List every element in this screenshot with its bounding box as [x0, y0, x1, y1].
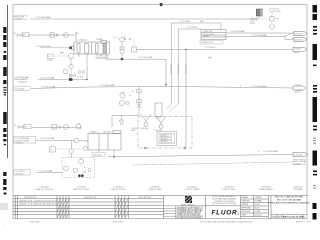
svg-text:2-31013-01: 2-31013-01 — [93, 155, 102, 157]
svg-text:ISSUED FOR CONSTRUCTION 05-98: ISSUED FOR CONSTRUCTION 05-98 — [19, 200, 57, 202]
right edge registration marks — [313, 5, 318, 220]
instrument circle with tail — [120, 37, 125, 42]
svg-text:2"-LO-31024-A3A: 2"-LO-31024-A3A — [252, 34, 267, 37]
svg-text:3"-LO-31016-A3A: 3"-LO-31016-A3A — [252, 85, 267, 88]
svg-text:2"-LO-31030-A3A: 2"-LO-31030-A3A — [263, 150, 278, 153]
off-page connector flag 3 — [293, 47, 307, 54]
svg-text:SHT 2: SHT 2 — [295, 92, 300, 94]
svg-text:FLUOR.: FLUOR. — [212, 209, 240, 216]
svg-text:DRAWN: DRAWN — [242, 196, 249, 199]
svg-text:1: 1 — [14, 200, 15, 202]
svg-text:FILTER: FILTER — [203, 36, 210, 38]
exchanger feed lines — [226, 32, 291, 34]
title block grid — [206, 196, 308, 219]
svg-text:DESIGN: DESIGN — [242, 204, 249, 206]
svg-text:2"-LO-31027-A3A: 2"-LO-31027-A3A — [40, 137, 55, 140]
svg-text:NOTE 2: NOTE 2 — [161, 138, 168, 140]
svg-text:0: 0 — [14, 204, 15, 206]
upper tank line — [32, 127, 81, 129]
svg-text:2-31012: 2-31012 — [294, 163, 301, 165]
svg-text:R. KHAN: R. KHAN — [255, 199, 263, 202]
svg-text:2"-LO-31021: 2"-LO-31021 — [180, 21, 190, 23]
exchanger tag box — [200, 41, 223, 44]
client logo — [185, 196, 192, 203]
svg-text:2"-LO-31032-A3A: 2"-LO-31032-A3A — [38, 170, 53, 173]
svg-text:2-31009: 2-31009 — [294, 85, 301, 87]
svg-text:12-05-98: 12-05-98 — [255, 215, 262, 217]
svg-text:2-31006-C1/C2: 2-31006-C1/C2 — [201, 42, 213, 44]
off-page connector flag 6 — [258, 150, 308, 157]
svg-text:N2: N2 — [14, 33, 16, 35]
svg-text:PSL: PSL — [276, 19, 279, 21]
svg-text:LUBE OIL COOLER: LUBE OIL COOLER — [73, 189, 90, 191]
instrument square — [50, 33, 54, 37]
svg-text:DESCRIPTION: DESCRIPTION — [139, 197, 152, 199]
tank tag box — [92, 153, 105, 157]
left film edge line — [6, 5, 9, 158]
svg-text:SC 101: SC 101 — [77, 77, 83, 79]
svg-text:2"-LO-31012-A3A: 2"-LO-31012-A3A — [36, 16, 51, 19]
reference drawing captions row — [35, 186, 303, 191]
svg-text:1: 1 — [304, 216, 305, 218]
svg-text:LUBE OIL CONSOLE: LUBE OIL CONSOLE — [35, 189, 53, 191]
vessel feed line — [40, 47, 72, 49]
svg-text:3"-LO-31016-A3A: 3"-LO-31016-A3A — [41, 85, 56, 88]
approval cells text — [242, 196, 263, 217]
instrument circle PDI — [270, 8, 274, 12]
instrument square on line — [132, 47, 137, 52]
off-page connector flag 1 — [230, 30, 307, 36]
svg-text:2-31015B: 2-31015B — [154, 130, 163, 132]
suction stem — [71, 141, 73, 158]
long line y87 right — [170, 86, 293, 88]
svg-text:2"-LO-31023-A3A: 2"-LO-31023-A3A — [230, 30, 245, 33]
disclaimer paragraph — [177, 206, 204, 219]
svg-text:2-31015A: 2-31015A — [140, 127, 149, 130]
svg-text:DRAIN HEADER: DRAIN HEADER — [259, 188, 273, 191]
dashed sample box lower — [62, 158, 95, 178]
vent drain line — [112, 116, 139, 128]
row2 components — [14, 33, 69, 38]
svg-text:2-LO-31019: 2-LO-31019 — [176, 64, 178, 74]
arrow V1 to y94 — [165, 84, 168, 87]
revision table — [13, 196, 307, 219]
svg-text:2-3100: 2-3100 — [47, 60, 53, 62]
svg-text:DESCRIPTION: DESCRIPTION — [84, 197, 97, 199]
svg-text:PIPING AND INSTRUMENTATION DIA: PIPING AND INSTRUMENTATION DIAGRAM — [269, 201, 310, 204]
diamond — [269, 24, 275, 30]
vessel drain left — [38, 54, 87, 80]
svg-text:APPROVED: APPROVED — [242, 206, 252, 209]
svg-text:MILL OIL / LUBE OIL SYSTEM: MILL OIL / LUBE OIL SYSTEM — [275, 196, 303, 198]
svg-text:SKID: SKID — [131, 130, 136, 132]
svg-text:LUBE OIL FILTER: LUBE OIL FILTER — [111, 189, 126, 191]
svg-text:2-31008: 2-31008 — [294, 49, 301, 51]
inline valve — [252, 18, 257, 21]
small valve — [57, 34, 59, 37]
drawing title — [269, 196, 310, 204]
oval label y87 — [14, 84, 116, 91]
svg-text:STORAGE: STORAGE — [294, 188, 304, 191]
lower supply label — [14, 170, 54, 176]
hatch marks col group 2 — [115, 199, 127, 218]
label below drain line end — [295, 90, 302, 94]
svg-text:3"-LO-31013: 3"-LO-31013 — [205, 47, 215, 49]
svg-text:DESCRIPTION: DESCRIPTION — [24, 197, 37, 199]
svg-text:2-31007-B: 2-31007-B — [295, 39, 304, 41]
svg-text:PROJECT MILL OIL SYSTEM: PROJECT MILL OIL SYSTEM — [212, 203, 237, 205]
equipment tag box — [96, 55, 108, 59]
vertical V4 — [185, 50, 187, 149]
lube oil console vessels — [72, 41, 110, 60]
svg-text:2-31013: 2-31013 — [105, 131, 112, 133]
pipe line row2 — [28, 34, 76, 36]
instrument circle on feed line — [74, 138, 79, 143]
svg-text:A. LEE: A. LEE — [255, 203, 261, 206]
title block company area — [164, 195, 240, 219]
pump B — [156, 117, 166, 126]
note rows left of disclaimer — [164, 206, 206, 219]
svg-text:PROJ ENG: PROJ ENG — [242, 211, 251, 213]
vertical V1 — [165, 59, 167, 85]
black valve on drain line — [69, 78, 72, 81]
instrument cluster mid (x119-142) — [119, 90, 141, 109]
svg-text:NOTE 1: NOTE 1 — [161, 136, 168, 138]
package unit boundary — [138, 103, 192, 150]
svg-text:2-31014-B: 2-31014-B — [15, 173, 24, 175]
pipe line y50 — [137, 49, 294, 51]
drain label left — [14, 76, 72, 84]
junction dots — [113, 156, 115, 158]
instrument drop — [138, 87, 140, 116]
inner control panel — [157, 132, 177, 146]
valve — [17, 34, 22, 37]
lube oil tank — [85, 131, 121, 150]
tank feed label — [14, 137, 56, 145]
vertical line labels — [169, 64, 186, 74]
svg-text:S2FT70088: S2FT70088 — [113, 222, 122, 224]
svg-text:NOTE 3: NOTE 3 — [161, 141, 168, 143]
svg-text:31008: 31008 — [276, 11, 281, 13]
tank feed line — [36, 140, 74, 142]
svg-text:DRAIN HEADER: DRAIN HEADER — [14, 78, 28, 81]
drawing number row — [272, 215, 306, 218]
dashed line y164 — [133, 162, 293, 165]
svg-text:TO 2-31006: TO 2-31006 — [15, 89, 25, 91]
tank outlet drop — [113, 150, 115, 157]
left edge registration marks — [3, 27, 6, 195]
svg-text:2-31006-01: 2-31006-01 — [97, 57, 106, 59]
row y127 components — [14, 123, 81, 129]
svg-text:CHECKED: CHECKED — [242, 200, 251, 202]
svg-text:2"-LO-31022: 2"-LO-31022 — [187, 27, 197, 29]
lower supply line — [36, 172, 62, 174]
svg-text:D. RAY: D. RAY — [255, 210, 261, 213]
off-page connector flag 4 — [240, 85, 306, 90]
svg-text:LUBE OIL TANK: LUBE OIL TANK — [148, 188, 162, 191]
svg-text:1"-LO-31011-A3A: 1"-LO-31011-A3A — [36, 45, 51, 48]
left signal cluster — [47, 53, 85, 79]
vertical V2 — [171, 23, 173, 104]
svg-text:SHT 2: SHT 2 — [294, 52, 299, 54]
pipe line top — [30, 18, 259, 20]
exchanger / cooler box — [201, 30, 226, 40]
svg-text:2-LO-31018: 2-LO-31018 — [169, 64, 171, 74]
branch line y23 — [172, 23, 222, 30]
svg-text:2-LO-31020: 2-LO-31020 — [184, 64, 186, 74]
svg-text:2-31005-01: 2-31005-01 — [78, 40, 87, 42]
top line right end components — [250, 8, 281, 30]
long line y87 left — [31, 86, 170, 88]
svg-text:3"-LO-31017-A3A: 3"-LO-31017-A3A — [100, 84, 115, 87]
vent funnel — [121, 116, 123, 121]
vertical V3 — [178, 29, 180, 104]
svg-text:PLOT 12-MAY-1998 14:32 S2FT70: PLOT 12-MAY-1998 14:32 S2FT70088 888-C2-… — [200, 220, 253, 223]
top center tick — [160, 3, 163, 6]
line label LL1 — [14, 16, 51, 20]
vessel drain line — [107, 58, 167, 60]
svg-text:2-31006: 2-31006 — [96, 39, 103, 41]
svg-text:MILL OIL FLOW DIAGRAM: MILL OIL FLOW DIAGRAM — [277, 198, 302, 201]
tank instruments left — [50, 146, 88, 152]
duplex filter rects — [256, 9, 259, 16]
instrument square — [270, 17, 274, 21]
svg-text:LUBE OIL SKID: LUBE OIL SKID — [223, 189, 236, 191]
suction diagonals — [167, 104, 179, 112]
svg-text:LEVEL SW: LEVEL SW — [203, 31, 212, 33]
svg-text:31012: 31012 — [250, 23, 255, 25]
instrument circle — [64, 33, 69, 38]
long line y156 — [108, 155, 293, 157]
instrument on y50 line — [120, 36, 216, 61]
svg-text:2-31005-8: 2-31005-8 — [15, 18, 23, 20]
riser rect — [155, 103, 162, 117]
branch line y29 — [179, 28, 202, 30]
svg-text:LUBE OIL PUMPS: LUBE OIL PUMPS — [185, 189, 201, 191]
svg-text:2"-LO-31015-A3A: 2"-LO-31015-A3A — [40, 77, 55, 80]
top small fittings above vessels — [75, 32, 131, 40]
control valve — [120, 47, 124, 49]
svg-text:S2FT70088: S2FT70088 — [30, 222, 39, 224]
label box dashed line end — [293, 159, 306, 165]
svg-text:2-31006-B: 2-31006-B — [295, 33, 304, 35]
svg-text:M. ALI: M. ALI — [255, 206, 260, 209]
svg-text:2-31013-B: 2-31013-B — [15, 143, 24, 145]
svg-text:2"-LO-31017-A3A: 2"-LO-31017-A3A — [138, 56, 153, 59]
pump A — [141, 115, 151, 124]
svg-text:J. SMITH: J. SMITH — [255, 197, 263, 199]
svg-text:ISSUED FOR DESIGN REVIEW 02-9: ISSUED FOR DESIGN REVIEW 02-98 — [19, 204, 58, 206]
svg-text:2-31005-B: 2-31005-B — [18, 82, 27, 84]
hatch marks col group 1 — [57, 199, 68, 218]
svg-text:a: a — [4, 224, 5, 226]
svg-text:888-C2-100-10-0001: 888-C2-100-10-0001 — [283, 217, 305, 219]
svg-text:2-31013-T1: 2-31013-T1 — [90, 131, 99, 133]
off-page connector flag 2 — [252, 34, 307, 42]
svg-text:2-31011-B: 2-31011-B — [294, 154, 303, 156]
svg-text:SHEET 1 OF 1: SHEET 1 OF 1 — [296, 221, 312, 223]
